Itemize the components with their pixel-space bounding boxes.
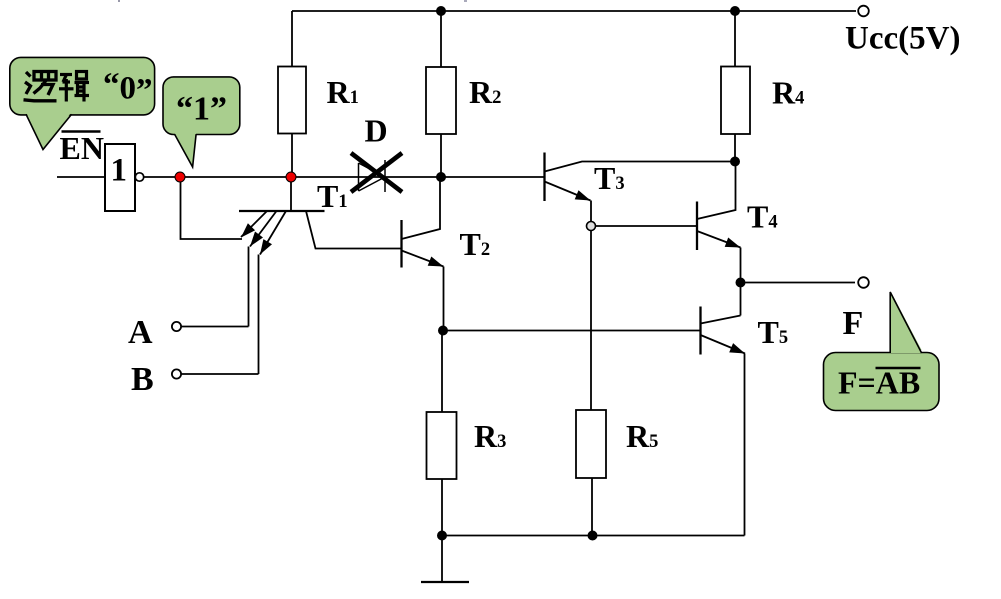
T1 emitter 1 (EN) <box>241 211 267 237</box>
wire R4 top <box>734 11 736 67</box>
svg-text:EN: EN <box>60 130 104 166</box>
node R4/T3c/T4c <box>730 157 740 167</box>
transistor T5 base bar <box>699 307 701 355</box>
wire R4 bottom <box>734 134 736 162</box>
stray speck 1 <box>118 0 120 2</box>
T3 collector <box>545 162 736 172</box>
wire T1 emitter3 to B <box>258 255 260 375</box>
resistor R5 <box>576 410 606 478</box>
output wire to F <box>741 282 856 284</box>
svg-text:R2: R2 <box>469 74 501 110</box>
transistor T1 base bar <box>239 210 325 212</box>
callout logic-0 text 辑 <box>59 72 89 102</box>
T4 collector <box>697 162 736 220</box>
node R2/T2 collector <box>436 172 446 182</box>
callout F bubble <box>824 353 940 411</box>
EN overline <box>62 130 101 133</box>
input A terminal <box>172 322 181 331</box>
T5 collector <box>701 316 741 324</box>
svg-text:T1: T1 <box>317 178 348 214</box>
svg-text:D: D <box>365 113 388 149</box>
wire R3 to ground rail <box>441 479 443 536</box>
wire T5 emitter to ground rail <box>744 354 746 536</box>
node rail-R4 junction <box>730 6 740 16</box>
wire T3 emitter to node <box>590 201 592 223</box>
wire R1 bottom <box>291 134 293 178</box>
callout F tail <box>890 292 921 353</box>
svg-text:1: 1 <box>111 153 128 189</box>
inverter gate U1 <box>105 144 135 211</box>
svg-text:“0”: “0” <box>103 67 153 108</box>
svg-text:R5: R5 <box>626 418 658 454</box>
transistor T3 base bar <box>543 153 545 202</box>
node T3e/T4b (open) <box>587 222 596 231</box>
svg-text:F: F <box>843 305 864 342</box>
wire output to T5 collector <box>740 283 742 316</box>
node ground/R3 <box>437 531 447 541</box>
X mark over diode D (cut off) <box>351 153 402 192</box>
svg-text:T3: T3 <box>594 160 625 196</box>
wire R5 bottom <box>591 478 593 536</box>
svg-text:“1”: “1” <box>176 91 227 128</box>
callout logic-0 tail <box>26 112 72 150</box>
wire T1 base <box>290 177 292 211</box>
T3 emitter <box>545 182 591 201</box>
callout logic-1 tail <box>175 133 197 167</box>
wire R2 bottom <box>440 134 442 177</box>
node rail-R2 junction <box>436 6 446 16</box>
T1 emitter 3 (B) <box>260 211 286 255</box>
node T1 base (red) <box>286 172 296 182</box>
callout F overline <box>876 367 921 370</box>
svg-text:T5: T5 <box>758 314 789 350</box>
svg-text:A: A <box>128 314 153 351</box>
T5 emitter <box>701 335 746 354</box>
svg-text:R4: R4 <box>772 75 804 111</box>
power rail Ucc <box>292 10 856 12</box>
callout logic-0 bubble <box>10 57 155 115</box>
T1 collector <box>306 211 402 249</box>
ground symbol <box>441 536 443 583</box>
svg-text:T2: T2 <box>460 226 491 262</box>
node logic-1 (red) <box>175 172 185 182</box>
T2 collector <box>402 177 441 239</box>
wire node1 down to EN emitter <box>181 177 243 239</box>
input B terminal <box>172 369 181 378</box>
resistor R2 <box>426 67 456 134</box>
callout logic-1 bubble <box>163 77 240 135</box>
wire node to T4 base <box>591 225 697 227</box>
T2 emitter <box>402 251 444 267</box>
diode D <box>359 160 386 192</box>
callout logic-0 tail fill <box>26 113 72 150</box>
Ucc terminal <box>858 6 869 17</box>
T1 emitter 2 (A) <box>250 211 277 247</box>
wire down to R3 <box>441 331 443 413</box>
EN input wire <box>57 176 105 178</box>
wire R2 top <box>440 11 442 67</box>
transistor T2 base bar <box>400 220 402 268</box>
callout logic-0 text 逻 <box>24 72 57 101</box>
wire node to R5 <box>590 226 592 410</box>
svg-text:Ucc(5V): Ucc(5V) <box>845 21 960 57</box>
F terminal <box>858 277 869 288</box>
svg-text:R1: R1 <box>327 74 359 110</box>
inverter output bubble <box>135 173 143 181</box>
svg-text:F=AB: F=AB <box>838 365 920 401</box>
node T2 emitter junction <box>438 326 448 336</box>
node output <box>736 278 746 288</box>
wire R1 top <box>291 11 293 67</box>
svg-text:T4: T4 <box>747 199 778 235</box>
wire T1 emitter2 to A <box>248 247 250 327</box>
resistor R1 <box>278 67 306 134</box>
wire T2e to T5 base <box>443 330 701 332</box>
wire B <box>181 373 258 375</box>
ground rail <box>442 535 745 537</box>
T4 emitter <box>697 231 741 248</box>
resistor R4 <box>721 67 750 135</box>
wire inverter output to T3 base <box>144 176 545 178</box>
resistor R3 <box>427 412 457 479</box>
stray speck 2 <box>464 0 467 2</box>
svg-text:R3: R3 <box>474 418 506 454</box>
transistor T4 base bar <box>696 202 698 251</box>
svg-text:B: B <box>131 361 154 398</box>
node ground/R5 <box>588 531 598 541</box>
wire A <box>181 326 248 328</box>
callout F tail fill <box>891 292 922 350</box>
wire T4 emitter to output node <box>740 248 742 283</box>
wire T2 emitter down <box>443 267 445 331</box>
